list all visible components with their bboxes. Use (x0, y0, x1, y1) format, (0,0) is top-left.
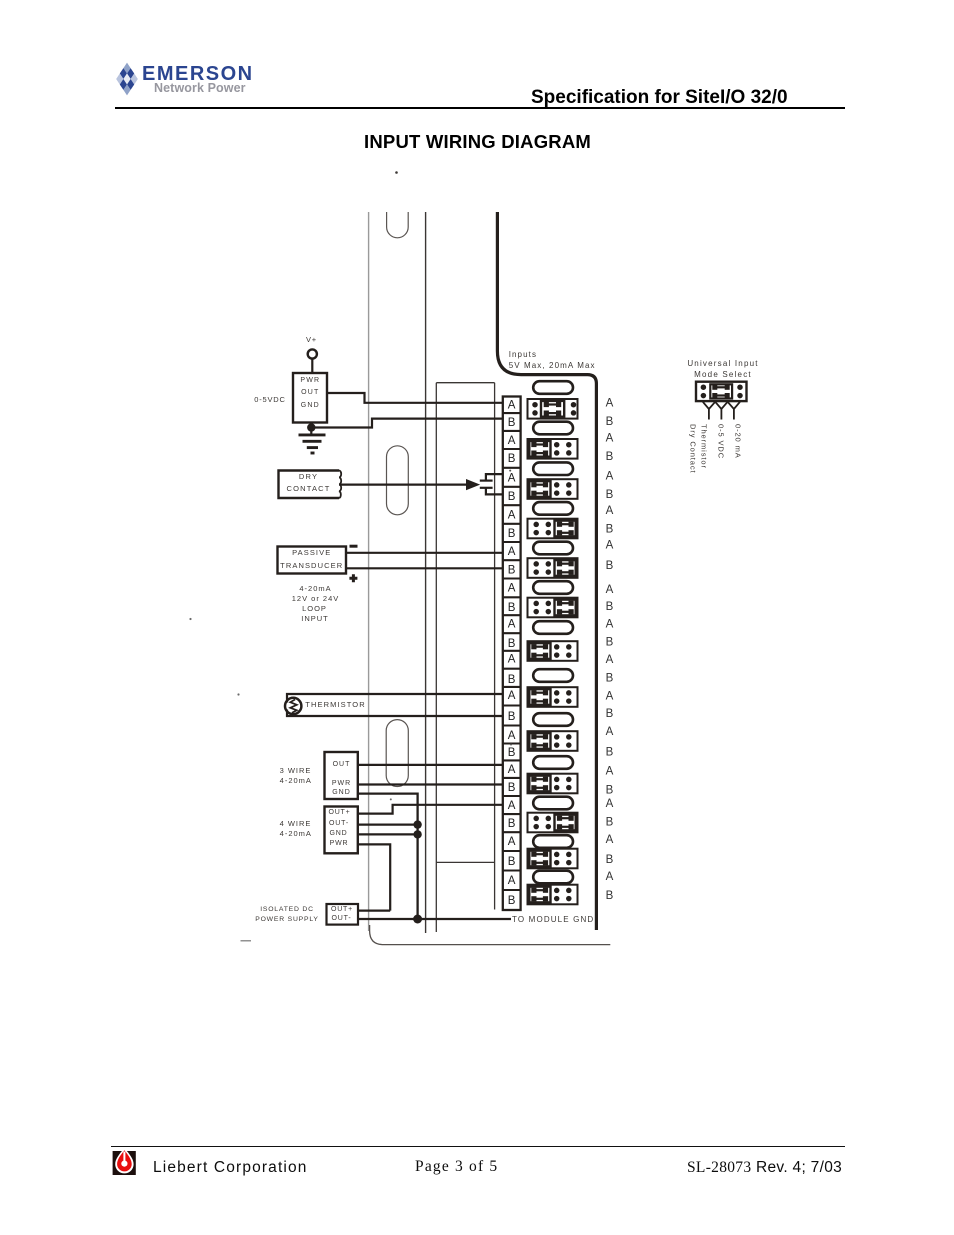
ISOLATED DC POWER SUPPLY box (327, 904, 359, 925)
wire 4W GND to bus (358, 833, 418, 835)
svg-text:A: A (606, 619, 614, 631)
svg-text:A: A (508, 764, 516, 776)
svg-text:B: B (606, 489, 614, 501)
wire V+ to PWR box (311, 359, 313, 373)
terminal cell border (503, 777, 521, 779)
svg-text:B: B (508, 782, 516, 794)
label 4W PWR (259, 840, 419, 847)
module inner panel right line (494, 383, 496, 910)
svg-text:B: B (606, 890, 614, 902)
terminal cell border (503, 486, 521, 488)
svg-text:B: B (606, 451, 614, 463)
svg-text:A: A (606, 871, 614, 883)
terminal cell border (503, 614, 521, 616)
svg-text:B: B (606, 524, 614, 536)
svg-text:B: B (508, 602, 516, 614)
arrowhead (467, 480, 479, 490)
terminal cell border (503, 448, 521, 450)
svg-text:A: A (606, 397, 614, 409)
svg-text:A: A (508, 510, 516, 522)
EMERSON wordmark (142, 63, 254, 86)
label 4 WIRE (216, 820, 376, 828)
speck above terminal B9 (510, 744, 512, 746)
wire 4W OUT+ to A11 (358, 805, 503, 814)
terminal strip outer box (503, 397, 521, 911)
Emerson logo diamond icon (114, 60, 140, 98)
footer doc number (687, 1159, 842, 1177)
label 3 WIRE (216, 767, 376, 775)
label ISO OUT+ (262, 906, 422, 913)
wire supply OUT- to module gnd (358, 918, 511, 920)
svg-text:A: A (606, 798, 614, 810)
svg-text:B: B (508, 417, 516, 429)
jumper block row 1 (528, 399, 578, 419)
terminal cell border (503, 813, 521, 815)
svg-text:B: B (606, 747, 614, 759)
terminal cell border (503, 412, 521, 414)
label LOOP (235, 605, 395, 613)
jumper block row 2 (528, 439, 578, 459)
footer rule (111, 1146, 845, 1147)
terminal cell border (503, 632, 521, 634)
terminal cell border (503, 523, 521, 525)
wire GND to terminal B1 (311, 419, 503, 428)
label PWR (230, 377, 390, 384)
terminal cell border (503, 650, 521, 652)
label GND (230, 402, 390, 409)
label 3W GND (262, 789, 422, 796)
GND junction dot (307, 423, 315, 431)
terminal cell border (503, 541, 521, 543)
svg-text:A: A (606, 584, 614, 596)
jumper block row 4 (528, 519, 578, 539)
label TO MODULE GND (512, 915, 594, 924)
svg-text:A: A (508, 800, 516, 812)
jumper block row 3 (528, 479, 578, 499)
svg-text:B: B (508, 638, 516, 650)
label 0-5VDC (190, 396, 350, 404)
svg-text:A: A (508, 690, 516, 702)
wire transducer minus to A5 (346, 552, 503, 554)
label 4W GND (259, 830, 419, 837)
svg-text:A: A (508, 583, 516, 595)
inner panel bottom edge (436, 861, 494, 863)
svg-text:B: B (508, 565, 516, 577)
stray dot (390, 798, 392, 800)
label PASSIVE (232, 549, 392, 557)
svg-text:B: B (606, 560, 614, 572)
input slot obround row 4 (533, 502, 573, 515)
svg-text:A: A (606, 654, 614, 666)
rail slot top (open) (387, 212, 409, 238)
wire transducer plus to B5 (346, 567, 503, 569)
svg-text:A: A (508, 875, 516, 887)
inner panel top edge (436, 382, 494, 384)
wire 3W OUT to A10 (358, 764, 503, 766)
input slot obround row 5 (533, 542, 573, 555)
label V+ (232, 336, 392, 344)
label 4-20mA loop (236, 585, 396, 593)
label OUT (230, 389, 390, 396)
PASSIVE TRANSDUCER box (278, 547, 347, 574)
input slot obround row 8 (533, 669, 573, 682)
label 0-5 VDC (rotated) (717, 424, 726, 459)
3 WIRE box (325, 752, 358, 799)
minus sign (350, 545, 358, 548)
jumper block row 7 (528, 641, 578, 661)
svg-text:A: A (508, 473, 516, 485)
label 4W 4-20mA (216, 830, 376, 838)
terminal cell border (503, 795, 521, 797)
terminal cell border (503, 759, 521, 761)
wire OUT to terminal A1 (327, 393, 503, 403)
label ISO OUT- (262, 915, 422, 922)
input slot obround row 9 (533, 713, 573, 726)
module inner panel left line (435, 383, 437, 932)
jumper block row 10 (528, 774, 578, 794)
DRY CONTACT box (wavy right edge) (279, 471, 342, 499)
DIN rail left gray line (368, 212, 370, 931)
wire thermistor to A8 (287, 694, 503, 703)
0-5VDC source box (293, 373, 327, 423)
wire supply OUT+ (358, 909, 390, 911)
contact plate top (480, 480, 493, 482)
wire dry contact with arrow (339, 484, 467, 486)
svg-text:B: B (508, 818, 516, 830)
wire 4W OUT- to bus (358, 823, 418, 825)
header rule (115, 107, 845, 109)
bottom left dash mark (241, 940, 252, 942)
svg-text:A: A (606, 470, 614, 482)
terminal cell border (503, 467, 521, 469)
rail slot middle (387, 446, 409, 515)
terminal cell border (503, 559, 521, 561)
terminal cell border (503, 504, 521, 506)
DIN rail right line (425, 212, 427, 933)
terminal cell border (503, 430, 521, 432)
label Dry Contact (rotated) (689, 424, 698, 474)
wire 3W PWR to B10 (358, 783, 503, 785)
svg-text:A: A (606, 690, 614, 702)
module outline thick edge (497, 212, 596, 930)
svg-text:B: B (606, 601, 614, 613)
svg-text:A: A (508, 435, 516, 447)
label TRANSDUCER (232, 562, 392, 570)
svg-text:A: A (606, 834, 614, 846)
input slot obround row 7 (533, 621, 573, 634)
terminal cell border (503, 686, 521, 688)
wire 4W PWR to supply (358, 844, 390, 910)
terminal cell border (503, 889, 521, 891)
label Inputs (509, 350, 537, 359)
label CONTACT (229, 485, 389, 493)
svg-text:B: B (508, 491, 516, 503)
svg-text:B: B (606, 637, 614, 649)
jumper block row 8 (528, 687, 578, 707)
label 3W OUT (262, 761, 422, 768)
bracket to terminals A3 B3 (486, 474, 503, 494)
rail slot lower (386, 720, 408, 787)
page heading INPUT WIRING DIAGRAM (364, 131, 591, 153)
label 3W 4-20mA (216, 777, 376, 785)
svg-text:B: B (606, 673, 614, 685)
stray dot (237, 693, 239, 695)
input slot obround row 3 (533, 462, 573, 475)
V+ terminal circle (308, 349, 317, 358)
stray dot (395, 171, 398, 174)
terminal cell border (503, 850, 521, 852)
label Mode Select (643, 370, 803, 379)
svg-text:A: A (606, 766, 614, 778)
footer Page 3 of 5 (415, 1158, 498, 1176)
jumper block row 5 (528, 558, 578, 578)
mode select jumper block (696, 382, 747, 401)
terminal cell border (503, 742, 521, 744)
svg-text:B: B (508, 528, 516, 540)
svg-text:A: A (606, 433, 614, 445)
label 12V or 24V (236, 595, 396, 603)
input slot obround row 6 (533, 581, 573, 594)
input slot obround row 12 (533, 835, 573, 848)
terminal cell border (503, 596, 521, 598)
input slot obround row 2 (533, 422, 573, 435)
terminal cell border (503, 577, 521, 579)
ground symbol (299, 427, 326, 453)
svg-text:A: A (508, 546, 516, 558)
label 3W PWR (262, 780, 422, 787)
mode select pin fan-out legs (703, 402, 740, 420)
terminal cell border (503, 668, 521, 670)
svg-text:B: B (508, 674, 516, 686)
label 4W OUT+ (260, 809, 420, 816)
label INPUT (235, 615, 395, 623)
module bottom outline (370, 925, 611, 945)
svg-text:A: A (508, 836, 516, 848)
svg-text:B: B (606, 817, 614, 829)
input slot obround row 13 (533, 871, 573, 884)
input slot obround row 1 (533, 381, 573, 394)
label POWER SUPPLY (207, 916, 367, 923)
footer Liebert Corporation (153, 1159, 308, 1177)
svg-text:B: B (606, 785, 614, 797)
jumper block row 6 (528, 598, 578, 618)
label 5V Max 20mA Max (509, 361, 596, 370)
svg-text:B: B (606, 854, 614, 866)
junction dot OUT- (413, 820, 421, 828)
document title (531, 87, 788, 109)
svg-text:B: B (508, 747, 516, 759)
svg-text:A: A (508, 619, 516, 631)
jumper block row 11 (528, 813, 578, 833)
svg-text:A: A (508, 400, 516, 412)
speck above terminal A3 (509, 470, 511, 472)
svg-text:B: B (508, 895, 516, 907)
svg-text:B: B (508, 711, 516, 723)
svg-text:B: B (508, 856, 516, 868)
junction dot GND (413, 830, 421, 838)
svg-text:A: A (606, 726, 614, 738)
jumper block row 9 (528, 731, 578, 751)
Liebert flame logo (112, 1149, 138, 1177)
Network Power tagline (154, 81, 246, 95)
svg-text:A: A (606, 505, 614, 517)
svg-text:A: A (508, 654, 516, 666)
label Thermistor (rotated) (700, 424, 709, 469)
label 0-20 mA (rotated) (734, 424, 743, 459)
terminal cell border (503, 724, 521, 726)
terminal cell border (503, 869, 521, 871)
jumper block row 13 (528, 885, 578, 905)
jumper block row 12 (528, 849, 578, 869)
wire thermistor to B8 (287, 710, 503, 717)
input slot obround row 10 (533, 756, 573, 769)
thermistor symbol (285, 698, 301, 714)
svg-text:A: A (508, 730, 516, 742)
junction dot module gnd (413, 915, 422, 924)
label Universal Input (643, 359, 803, 368)
terminal cell border (503, 831, 521, 833)
4 WIRE box (325, 807, 358, 854)
wire 3W GND to ground bus (358, 794, 418, 919)
svg-text:A: A (606, 540, 614, 552)
label 4W OUT- (259, 820, 419, 827)
terminal cell border (503, 704, 521, 706)
svg-text:B: B (606, 416, 614, 428)
svg-text:B: B (508, 453, 516, 465)
label DRY (229, 473, 389, 481)
input slot obround row 11 (533, 797, 573, 810)
stray dot (189, 618, 191, 620)
label ISOLATED DC (207, 906, 367, 913)
label THERMISTOR (256, 701, 416, 709)
svg-text:B: B (606, 708, 614, 720)
contact plate bottom (480, 487, 493, 489)
plus sign (349, 574, 357, 582)
